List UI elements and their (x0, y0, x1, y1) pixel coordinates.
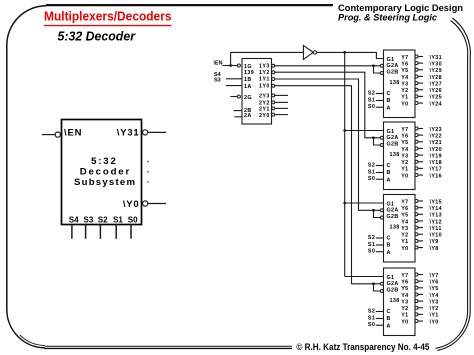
svg-text:\EN: \EN (214, 60, 223, 66)
decoder U3 output Y7 bubble and stub (415, 127, 418, 130)
output net labels \Y23..\Y16 (430, 127, 443, 180)
decoder U4 output Y4 bubble and stub (415, 219, 418, 222)
decoder U4 output Y1 bubble and stub (415, 239, 418, 242)
svg-text:Y2: Y2 (401, 88, 408, 94)
svg-text:\Y0: \Y0 (430, 319, 439, 325)
svg-text:G2A: G2A (387, 281, 399, 287)
output net labels \Y15..\Y8 (430, 199, 443, 252)
139 left pin labels (244, 64, 254, 119)
svg-text:Y6: Y6 (401, 133, 408, 139)
svg-text:138: 138 (390, 224, 400, 230)
svg-text:Subsystem: Subsystem (74, 177, 135, 188)
svg-text:Y0: Y0 (401, 101, 408, 107)
svg-text:\Y3: \Y3 (430, 299, 439, 305)
decoder U4 G2B bubble (380, 216, 383, 219)
wire inverter output to decoder1 G1 (317, 52, 384, 58)
decoder U5 left pin labels (387, 275, 400, 329)
decoder U5 138 (\Y7-\Y0) box (384, 268, 416, 336)
svg-text:S1: S1 (368, 242, 375, 248)
wire EN vertical rail (344, 52, 346, 276)
wire S1 to decoder U5 pin B (376, 318, 384, 320)
svg-text:S2: S2 (368, 90, 375, 96)
ellipsis dots between Y31 and Y0 (147, 161, 149, 183)
svg-text:C: C (387, 163, 391, 169)
decoder U5 output Y5 bubble and stub (415, 286, 418, 289)
139 output bubble row 4 (272, 94, 275, 97)
svg-text:S0: S0 (368, 104, 375, 110)
svg-text:\Y27: \Y27 (430, 81, 443, 87)
svg-text:\Y4: \Y4 (430, 293, 439, 299)
frame border bottom-right corner double curve (436, 311, 468, 348)
svg-text:1Y1: 1Y1 (259, 77, 270, 83)
decoder U3 right pin labels Y7-Y0 (401, 127, 408, 180)
decoder U2 G2B bubble (380, 72, 383, 75)
wire stub 139 2A (234, 116, 242, 118)
139 output bubble row 1 (272, 71, 275, 74)
decoder U3 left pin labels (387, 129, 400, 183)
subsystem Y0 output bubble (143, 201, 148, 206)
svg-text:Y2: Y2 (401, 160, 408, 166)
frame border left edge (6, 46, 8, 310)
svg-text:Y5: Y5 (401, 68, 408, 74)
svg-text:\Y1: \Y1 (430, 313, 439, 319)
svg-text:Y6: Y6 (401, 206, 408, 212)
decoder U5 output Y0 bubble and stub (415, 320, 418, 323)
svg-text:5:32: 5:32 (91, 156, 116, 167)
decoder U5 output Y1 bubble and stub (415, 313, 418, 316)
wire EN to decoder4 G1 (345, 276, 384, 278)
svg-text:Contemporary Logic Design: Contemporary Logic Design (338, 3, 463, 13)
wire S2 to decoder U5 pin C (376, 311, 384, 313)
svg-text:Y3: Y3 (401, 226, 408, 232)
svg-text:B: B (387, 243, 391, 249)
wire EN to decoder3 G1 (345, 202, 384, 204)
svg-text:Y0: Y0 (401, 246, 408, 252)
subsystem name text (74, 156, 135, 188)
svg-text:\Y18: \Y18 (430, 160, 443, 166)
139 pin 1G bubble (237, 64, 240, 67)
inverter triangle (303, 45, 313, 59)
svg-text:\Y2: \Y2 (430, 306, 439, 312)
decoder U3 138 (\Y23-\Y16) box (384, 122, 416, 190)
decoder U4 138 (\Y15-\Y8) box (384, 195, 416, 263)
frame border top-right corner double curve (451, 21, 468, 59)
svg-text:A: A (387, 323, 391, 329)
decoder U2 output Y4 bubble and stub (415, 75, 418, 78)
svg-text:G2B: G2B (387, 288, 399, 294)
decoder U5 output Y6 bubble and stub (415, 280, 418, 283)
139 output bubble row 0 (272, 64, 275, 67)
svg-text:\Y8: \Y8 (430, 246, 439, 252)
decoder U4 left pin labels (387, 202, 400, 256)
decoder U2 output Y7 bubble and stub (415, 55, 418, 58)
decoder U4 output Y6 bubble and stub (415, 206, 418, 209)
svg-text:Y3: Y3 (401, 81, 408, 87)
decoder U3 output Y4 bubble and stub (415, 147, 418, 150)
decoder U2 left pin labels (387, 57, 400, 111)
svg-text:1G: 1G (244, 64, 252, 70)
svg-text:G2B: G2B (387, 70, 399, 76)
svg-text:Y7: Y7 (401, 273, 408, 279)
139 output bubble row 7 (272, 113, 275, 116)
svg-text:Y2: Y2 (401, 306, 408, 312)
svg-text:Y0: Y0 (401, 319, 408, 325)
svg-text:Y7: Y7 (401, 199, 408, 205)
decoder U4 right pin labels Y7-Y0 (401, 199, 408, 252)
svg-text:\Y24: \Y24 (430, 101, 443, 107)
svg-text:1Y3: 1Y3 (259, 64, 270, 70)
svg-text:S3: S3 (214, 78, 221, 84)
svg-text:S4: S4 (69, 216, 79, 225)
svg-text:Prog. & Steering Logic: Prog. & Steering Logic (338, 13, 437, 23)
decoder U5 right pin labels Y7-Y0 (401, 273, 408, 326)
decoder U2 output Y6 bubble and stub (415, 62, 418, 65)
svg-text:\Y10: \Y10 (430, 233, 443, 239)
wire S1 to decoder U3 pin B (376, 172, 384, 174)
svg-text:1Y2: 1Y2 (259, 70, 270, 76)
decoder U4 output Y2 bubble and stub (415, 233, 418, 236)
wire 139 2Y1 stub (275, 107, 288, 109)
wire S0 to decoder U2 pin A (376, 106, 384, 108)
svg-text:\Y29: \Y29 (430, 68, 443, 74)
decoder U2 G2A bubble (380, 64, 383, 67)
svg-text:Multiplexers/Decoders: Multiplexers/Decoders (44, 9, 172, 24)
svg-text:S2: S2 (368, 235, 375, 241)
wire S1 to decoder U4 pin B (376, 244, 384, 246)
svg-text:S0: S0 (368, 249, 375, 255)
decoder U3 output Y0 bubble and stub (415, 174, 418, 177)
svg-text:1A: 1A (244, 84, 252, 90)
subsystem Y31 output bubble (143, 130, 148, 135)
svg-text:\Y7: \Y7 (430, 273, 439, 279)
net labels S2 S1 S0 for decoder U4 (368, 235, 375, 255)
139 output bubble row 6 (272, 107, 275, 110)
wire S2 to decoder U4 pin C (376, 237, 384, 239)
inverter output bubble (313, 51, 316, 54)
svg-text:Y5: Y5 (401, 140, 408, 146)
svg-text:B: B (387, 98, 391, 104)
svg-text:S1: S1 (113, 216, 123, 225)
subsystem select labels S4 S3 S2 S1 S0 (69, 216, 138, 225)
wire S1 to decoder U2 pin B (376, 100, 384, 102)
wire 139 1Y1 to decoder3 G2A/G2B (275, 79, 381, 210)
output net labels \Y7..\Y0 (430, 273, 439, 326)
svg-text:Y6: Y6 (401, 279, 408, 285)
decoder U3 output Y3 bubble and stub (415, 154, 418, 157)
decoder 139 box (242, 59, 272, 125)
svg-text:S0: S0 (368, 322, 375, 328)
svg-text:G2A: G2A (387, 135, 399, 141)
decoder U4 G2A bubble (380, 209, 383, 212)
junction EN distribution node (343, 51, 346, 54)
svg-text:\Y22: \Y22 (430, 133, 443, 139)
svg-text:\Y19: \Y19 (430, 153, 443, 159)
svg-text:139: 139 (244, 70, 254, 76)
svg-text:2Y3: 2Y3 (259, 94, 270, 100)
svg-text:G2B: G2B (387, 214, 399, 220)
svg-text:Y3: Y3 (401, 299, 408, 305)
frame border top edge (46, 4, 333, 6)
svg-text:B: B (387, 170, 391, 176)
wire S2 to decoder U2 pin C (376, 93, 384, 95)
svg-text:Y1: Y1 (401, 313, 408, 319)
svg-text:\EN: \EN (64, 127, 82, 138)
svg-text:\Y31: \Y31 (430, 55, 443, 61)
svg-text:G2A: G2A (387, 63, 399, 69)
wire stub 139 2G (230, 96, 237, 98)
decoder U2 output Y5 bubble and stub (415, 68, 418, 71)
svg-text:G2A: G2A (387, 207, 399, 213)
svg-text:Y4: Y4 (401, 219, 408, 225)
decoder U5 output Y7 bubble and stub (415, 273, 418, 276)
svg-text:A: A (387, 177, 391, 183)
wire S4 to 139 1B (226, 78, 242, 80)
wire S0 to decoder U3 pin A (376, 178, 384, 180)
decoder U2 output Y0 bubble and stub (415, 102, 418, 105)
139 right pin labels (259, 64, 270, 119)
decoder U2 output Y2 bubble and stub (415, 88, 418, 91)
svg-text:S0: S0 (368, 176, 375, 182)
svg-text:\Y12: \Y12 (430, 219, 443, 225)
svg-text:\Y15: \Y15 (430, 199, 443, 205)
svg-text:2Y0: 2Y0 (259, 113, 270, 119)
svg-text:S0: S0 (128, 216, 138, 225)
wire 139 1Y0 to decoder4 G2A/G2B (275, 86, 381, 284)
wire S3 to 139 1A (226, 85, 242, 87)
svg-text:\Y31: \Y31 (117, 127, 140, 138)
frame border top-left corner (7, 6, 46, 46)
svg-text:\Y13: \Y13 (430, 213, 443, 219)
svg-text:S1: S1 (368, 315, 375, 321)
svg-text:\Y21: \Y21 (430, 140, 443, 146)
svg-text:\Y25: \Y25 (430, 95, 443, 101)
decoder U4 output Y0 bubble and stub (415, 246, 418, 249)
svg-text:138: 138 (390, 80, 400, 86)
svg-text:Y5: Y5 (401, 286, 408, 292)
139 pin 2G bubble (237, 95, 240, 98)
svg-text:\Y20: \Y20 (430, 147, 443, 153)
svg-text:C: C (387, 236, 391, 242)
wire Y31 output (148, 131, 166, 133)
svg-text:Y1: Y1 (401, 95, 408, 101)
svg-text:© R.H. Katz Transparency No.: © R.H. Katz Transparency No. 4-45 (296, 342, 429, 352)
svg-text:S2: S2 (368, 308, 375, 314)
decoder U2 output Y3 bubble and stub (415, 82, 418, 85)
svg-text:\Y14: \Y14 (430, 206, 443, 212)
subsystem EN input bubble (55, 132, 60, 137)
svg-text:A: A (387, 105, 391, 111)
wire EN to 139 1G (223, 65, 238, 67)
output net labels \Y31..\Y24 (430, 55, 443, 108)
svg-text:B: B (387, 316, 391, 322)
svg-text:Y4: Y4 (401, 147, 408, 153)
139 output bubble row 5 (272, 101, 275, 104)
svg-text:\Y6: \Y6 (430, 279, 439, 285)
svg-text:\Y30: \Y30 (430, 61, 443, 67)
svg-text:138: 138 (390, 298, 400, 304)
frame border right edge double line (467, 58, 469, 311)
svg-text:Y2: Y2 (401, 233, 408, 239)
frame border bottom-left corner (7, 309, 45, 348)
svg-text:\Y11: \Y11 (430, 226, 442, 232)
decoder U3 output Y6 bubble and stub (415, 134, 418, 137)
decoder U5 output Y2 bubble and stub (415, 306, 418, 309)
svg-text:\Y9: \Y9 (430, 239, 439, 245)
svg-text:Y4: Y4 (401, 75, 408, 81)
svg-text:2A: 2A (244, 113, 252, 119)
svg-text:\Y28: \Y28 (430, 75, 443, 81)
decoder U3 output Y2 bubble and stub (415, 160, 418, 163)
svg-text:\Y0: \Y0 (123, 199, 140, 210)
wire EN input to subsystem (42, 134, 55, 136)
svg-text:A: A (387, 250, 391, 256)
svg-text:Y1: Y1 (401, 167, 408, 173)
decoder U4 output Y3 bubble and stub (415, 226, 418, 229)
net labels S2 S1 S0 for decoder U5 (368, 308, 375, 328)
wire EN up to inverter input (231, 52, 304, 65)
139 output bubble row 2 (272, 78, 275, 81)
wire stub 139 2B (234, 110, 243, 112)
decoder U5 G2B bubble (380, 290, 383, 293)
subsystem select input stub wires (71, 224, 73, 238)
svg-text:C: C (387, 91, 391, 97)
svg-text:C: C (387, 309, 391, 315)
net labels S2 S1 S0 for decoder U2 (368, 90, 375, 110)
svg-text:Y7: Y7 (401, 127, 408, 133)
decoder U4 output Y5 bubble and stub (415, 213, 418, 216)
decoder U5 output Y4 bubble and stub (415, 293, 418, 296)
svg-text:G2B: G2B (387, 142, 399, 148)
wire 139 2Y0 stub (275, 114, 288, 116)
decoder U3 output Y5 bubble and stub (415, 140, 418, 143)
svg-text:\Y16: \Y16 (430, 173, 443, 179)
svg-text:1B: 1B (244, 77, 252, 83)
139 output bubble row 3 (272, 84, 275, 87)
decoder subsystem block box (62, 120, 142, 225)
svg-text:Y3: Y3 (401, 153, 408, 159)
svg-text:5:32 Decoder: 5:32 Decoder (58, 30, 137, 44)
decoder U2 138 (\Y31-\Y24) box (384, 50, 416, 118)
svg-text:Y7: Y7 (401, 55, 408, 61)
wire 139 1Y2 to decoder2 G2A/G2B (275, 72, 381, 138)
decoder U3 output Y1 bubble and stub (415, 167, 418, 170)
junction EN node (229, 64, 232, 67)
svg-text:Y1: Y1 (401, 239, 408, 245)
svg-text:Y5: Y5 (401, 213, 408, 219)
wire 139 1Y3 to decoder1 G2A/G2B (275, 65, 381, 67)
svg-text:Y4: Y4 (401, 293, 408, 299)
wire 139 2Y2 stub (275, 101, 288, 103)
decoder U5 G2A bubble (380, 282, 383, 285)
svg-text:2Y1: 2Y1 (259, 107, 270, 113)
svg-text:Y6: Y6 (401, 61, 408, 67)
wire Y0 output (148, 203, 166, 205)
decoder U2 right pin labels Y7-Y0 (401, 55, 408, 108)
decoder U3 G2B bubble (380, 144, 383, 147)
wire S0 to decoder U4 pin A (376, 251, 384, 253)
svg-text:\Y17: \Y17 (430, 167, 443, 173)
decoder U3 G2A bubble (380, 136, 383, 139)
svg-text:Y0: Y0 (401, 173, 408, 179)
wire S2 to decoder U3 pin C (376, 165, 384, 167)
svg-text:\Y26: \Y26 (430, 88, 443, 94)
svg-text:2G: 2G (244, 95, 252, 101)
svg-text:S2: S2 (98, 216, 108, 225)
svg-text:S3: S3 (84, 216, 94, 225)
wire EN to decoder2 G1 (345, 130, 384, 132)
svg-text:1Y0: 1Y0 (259, 84, 270, 90)
wire 139 2Y3 stub (275, 94, 288, 96)
svg-text:\Y23: \Y23 (430, 127, 443, 133)
frame border bottom edge double line (45, 345, 292, 347)
svg-text:\Y5: \Y5 (430, 286, 439, 292)
decoder U2 output Y1 bubble and stub (415, 95, 418, 98)
svg-text:138: 138 (390, 152, 400, 158)
decoder U5 output Y3 bubble and stub (415, 300, 418, 303)
net labels S2 S1 S0 for decoder U3 (368, 162, 375, 182)
svg-text:S1: S1 (368, 169, 375, 175)
svg-text:S2: S2 (368, 162, 375, 168)
wire S0 to decoder U5 pin A (376, 324, 384, 326)
decoder U4 output Y7 bubble and stub (415, 200, 418, 203)
svg-text:S1: S1 (368, 97, 375, 103)
